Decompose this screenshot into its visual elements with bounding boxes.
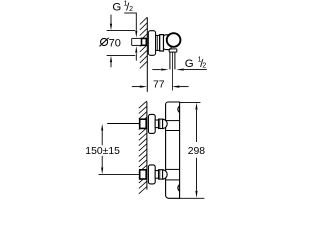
knob crescent upper	[178, 106, 180, 113]
upper union: s-union	[155, 120, 158, 128]
lower union: escutcheon	[148, 165, 155, 184]
texts	[85, 0, 206, 157]
Ø symbol of Ø70	[100, 38, 109, 47]
wall hatch (top view)	[140, 17, 148, 68]
svg-text:G: G	[112, 1, 121, 13]
upper union: hex nut	[159, 119, 164, 128]
supply pipe stub behind wall (top view)	[132, 38, 142, 45]
boss lines lower	[166, 168, 180, 170]
lower union: hex nut	[159, 170, 164, 179]
svg-text:150±15: 150±15	[85, 146, 120, 157]
svg-text:G: G	[185, 58, 194, 70]
knob circle (top view)	[167, 33, 181, 47]
77 dimension	[132, 86, 189, 88]
lower union: nose	[163, 170, 168, 179]
in-wall fitting square (top view)	[142, 38, 147, 45]
svg-text:77: 77	[153, 79, 165, 90]
svg-text:2: 2	[129, 6, 133, 13]
upper axis line	[107, 123, 140, 125]
boss lines upper	[166, 120, 180, 122]
thermostat bar outline	[166, 102, 180, 198]
wall face line (top view), also 77-dim extension	[146, 18, 148, 92]
lower union: fitting square	[140, 170, 147, 179]
outlet pipe (top view)	[170, 52, 175, 69]
G1/2 right dimension arrows	[152, 69, 207, 71]
wall hatch (bottom view)	[139, 101, 147, 194]
escutcheon Ø70 (top view, edge-on)	[148, 31, 155, 56]
svg-text:70: 70	[109, 37, 121, 49]
svg-text:298: 298	[188, 146, 206, 157]
G1/2 top leader	[124, 13, 136, 31]
knob crescent lower	[178, 185, 180, 192]
S-union body (top view)	[156, 35, 160, 50]
hex nut (top view)	[160, 35, 164, 51]
wall face line (bottom view)	[146, 102, 148, 190]
stub thread arrow (up)	[135, 53, 137, 60]
150±15 dimension line	[101, 131, 103, 168]
outlet pipe centerline / 77-dim extension	[171, 52, 173, 90]
collar below knob	[169, 49, 177, 52]
298 dimension	[180, 102, 205, 198]
upper union: escutcheon	[148, 114, 155, 133]
Ø70 dimension	[107, 15, 136, 68]
upper union: fitting square	[140, 119, 147, 128]
lower union: s-union	[155, 171, 158, 179]
valve body (top view)	[164, 35, 172, 50]
svg-text:2: 2	[202, 62, 206, 69]
lower axis line	[99, 173, 140, 175]
upper union: nose	[163, 119, 168, 128]
